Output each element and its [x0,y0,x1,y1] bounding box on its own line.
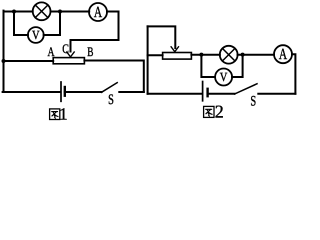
svg-text:A: A [94,4,103,21]
wire: fig2 slider top loop [148,26,176,48]
wire: lamp L2 to ammeter A2 [238,54,274,56]
switch S (fig2) [235,84,296,94]
voltmeter V1 [28,27,44,43]
wire: fig2 voltmeter branch [201,55,242,77]
battery B1 (fig1) [61,82,65,101]
wire: rheostat A terminal to left rail [4,60,54,62]
slider arrow C (fig1) [67,52,74,57]
node: fig1 junction top-left (voltmeter tap) [12,10,16,14]
svg-text:S: S [250,93,256,109]
battery B2 (fig2) [203,82,208,101]
wire: rheostat R2 to lamp L2 [191,54,219,56]
node: fig2 junction right (voltmeter tap) [241,53,245,57]
wire: fig1 voltmeter branch [14,12,60,36]
wire: fig1 top wire segments [4,11,119,13]
svg-text:2: 2 [215,101,224,121]
svg-text:V: V [32,28,40,42]
svg-text:1: 1 [59,104,68,123]
lamp L1 [33,2,51,20]
node: fig1 junction on left rail [2,59,6,63]
wire: fig1 left rail [3,11,5,92]
resistor R1 (slide rheostat fig1) [53,58,84,64]
ammeter A2 [274,45,292,63]
svg-text:A: A [279,46,288,63]
node: fig1 junction top-right (voltmeter tap) [58,10,62,14]
wire: fig1 bottom wire left of battery [3,91,60,93]
wire: fig2 bottom wire left of battery [148,93,202,95]
label 图2 (figure 2 caption) [204,101,224,121]
wire: fig2 left rail [147,26,149,93]
switch S (fig1) [102,83,144,93]
lamp L2 [220,46,238,64]
voltmeter V2 [215,69,232,86]
slider arrow (fig2) [171,47,178,52]
node: fig2 junction left (voltmeter tap) [199,53,203,57]
wire: battery B2 to switch [208,93,235,95]
wire: rheostat B terminal to right rail down to bottom [84,61,143,93]
wire: ammeter A2 to right rail [292,54,295,93]
svg-text:C: C [62,41,69,56]
ammeter A1 [89,3,107,21]
wire: battery to switch [65,91,102,93]
svg-text:A: A [48,44,55,59]
resistor R2 (slide rheostat fig2) [163,53,192,60]
svg-text:S: S [108,92,114,108]
wire: ammeter down to slider [71,12,119,52]
svg-text:V: V [220,70,228,84]
label 图1 (figure 1 caption) [50,104,68,123]
wire: left rail to rheostat R2 [148,54,163,56]
svg-text:B: B [87,44,93,59]
